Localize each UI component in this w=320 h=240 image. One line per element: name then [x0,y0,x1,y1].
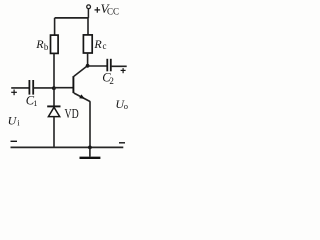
capacitor C1 [29,80,33,95]
svg-text:2: 2 [109,76,114,86]
power terminal +VCC circle and stub [87,5,91,18]
wire: Rc riser from rail [87,18,89,35]
svg-text:c: c [103,41,107,51]
wire: VD anode to ground rail [53,117,55,148]
label Rc [93,37,106,51]
wire: emitter down to ground rail [89,101,91,147]
svg-text:CC: CC [107,6,119,16]
capacitor C2 [107,59,111,72]
node: collector junction dot [86,64,90,68]
wire: base junction down to VD cathode [53,88,55,106]
wire: Rb bottom to base junction [53,53,55,88]
wire: collector node to C2 left plate [88,65,108,67]
diode VD (cathode bar up, triangle below) [47,106,60,116]
svg-text:R: R [93,37,102,51]
svg-text:VD: VD [65,105,80,121]
resistor Rb [51,35,59,53]
label Ui [8,114,21,128]
svg-text:U: U [8,114,18,128]
label − output polarity [119,142,125,144]
label + output polarity [121,68,126,73]
resistor Rc [83,35,92,53]
node: base junction dot [52,86,56,90]
node: emitter-rail junction dot [88,146,92,150]
wire: top supply rail [55,17,89,19]
wire: C2 right plate to output terminal [111,65,127,67]
wire: bottom ground rail [11,146,124,148]
label + input polarity [11,90,17,96]
wire: Rc bottom to collector node [87,53,89,66]
svg-text:b: b [44,42,49,52]
wire: base junction to transistor base [54,87,74,89]
wire: rail to Rb top [54,18,56,35]
label Rb [35,37,49,52]
svg-text:o: o [124,101,128,111]
svg-text:1: 1 [33,98,37,108]
wire: C1 right plate to base junction [33,87,54,89]
label +VCC [95,1,120,16]
transistor Q1 NPN [73,66,90,102]
svg-text:R: R [35,37,44,51]
label − input polarity [11,140,18,142]
wire: input terminal to C1 left plate [11,87,29,89]
ground [80,147,101,157]
label Uo [115,97,128,111]
label C1 [26,94,38,108]
label C2 [102,71,114,86]
